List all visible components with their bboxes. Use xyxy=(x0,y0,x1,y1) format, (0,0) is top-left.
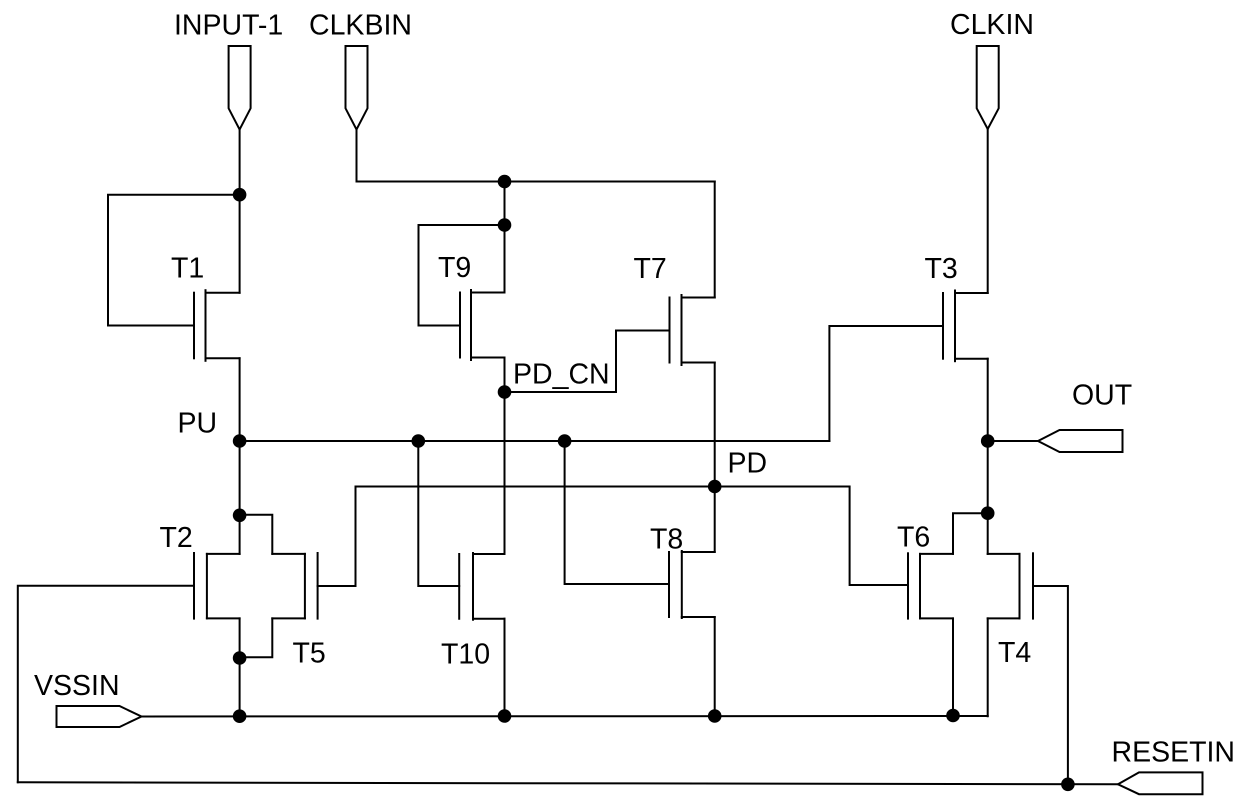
wire T7 source to PD xyxy=(714,363,716,487)
wire PD net east to T6 gate xyxy=(715,487,908,586)
node dot RESETIN / T4 gate xyxy=(1061,778,1075,792)
svg-text:T2: T2 xyxy=(160,522,193,554)
wire T8 drain to PD xyxy=(714,487,716,553)
wire VSSIN net xyxy=(142,715,988,718)
wire INPUT-1 to T1 drain xyxy=(239,130,241,293)
node dot T9 gate loop xyxy=(498,218,512,232)
svg-text:T9: T9 xyxy=(438,252,471,284)
node dot CLKBIN / T9 xyxy=(498,175,512,189)
wire T5 drain stub xyxy=(240,515,273,554)
node dot VSS / T6 xyxy=(946,709,960,723)
node dot VSS / T10 xyxy=(498,709,512,723)
wire T9 source to PD_CN xyxy=(504,358,506,393)
wire T8 gate xyxy=(565,441,669,584)
svg-text:PD: PD xyxy=(728,448,768,480)
transistor T3 xyxy=(943,291,988,362)
pin VSSIN xyxy=(57,706,142,727)
wire PU to T2/T5 drain node xyxy=(239,441,241,515)
wire T6 drain stub xyxy=(953,513,988,554)
node dot PD xyxy=(708,480,722,494)
wire OUT node to T6/T4 drain node xyxy=(987,441,989,513)
wire CLKBIN junction to T9 gate node xyxy=(504,182,506,226)
transistor T10 xyxy=(459,553,504,620)
wire T2 gate to RESETIN net xyxy=(18,586,194,783)
svg-text:T7: T7 xyxy=(634,253,667,285)
svg-text:RESETIN: RESETIN xyxy=(1112,737,1236,769)
wire CLKIN to T3 drain xyxy=(987,129,989,293)
pin OUT xyxy=(1038,430,1123,452)
transistor T4 xyxy=(988,553,1033,618)
svg-text:T3: T3 xyxy=(925,253,958,285)
wire T2 drain stub xyxy=(239,515,241,554)
svg-text:PD_CN: PD_CN xyxy=(513,359,610,391)
wire T10 gate xyxy=(418,441,459,586)
node dot INPUT-1 / T1 gate xyxy=(233,188,247,202)
node dot PD_CN xyxy=(498,385,512,399)
wire PU to T3 gate xyxy=(829,326,943,441)
wire PD net west to T5 gate xyxy=(318,487,715,587)
transistor T2 xyxy=(194,553,240,619)
pin CLKIN xyxy=(977,46,999,129)
wire T9 drain xyxy=(504,225,506,293)
transistor T9 xyxy=(460,290,505,360)
svg-text:OUT: OUT xyxy=(1072,380,1132,412)
svg-text:T4: T4 xyxy=(998,637,1031,669)
wire T4 source to VSS xyxy=(987,618,989,716)
node dot PU xyxy=(233,434,247,448)
node dot VSS / main xyxy=(233,709,247,723)
svg-text:T8: T8 xyxy=(650,524,683,556)
wire PU net xyxy=(240,440,830,442)
transistor T7 xyxy=(670,295,715,365)
svg-text:T6: T6 xyxy=(897,522,930,554)
node dot T2/T5 source xyxy=(233,651,247,665)
transistor T6 xyxy=(908,553,953,618)
wire RESETIN net xyxy=(18,782,1118,784)
wire T3 source to OUT node xyxy=(987,359,989,441)
pin INPUT-1 xyxy=(229,46,251,130)
transistor T1 xyxy=(194,290,240,361)
svg-text:INPUT-1: INPUT-1 xyxy=(174,10,283,42)
transistor T8 xyxy=(669,551,715,618)
wire T2/T5 source node to VSS xyxy=(239,658,241,716)
svg-text:CLKIN: CLKIN xyxy=(950,9,1034,41)
svg-text:T5: T5 xyxy=(293,638,326,670)
node dot VSS / T8 xyxy=(708,709,722,723)
wire T1 gate feedback loop xyxy=(108,195,240,326)
transistor T5 xyxy=(272,553,317,619)
wire T4 gate to RESETIN xyxy=(1033,586,1068,784)
node dot OUT xyxy=(981,434,995,448)
wire T10 source to VSS xyxy=(504,619,506,716)
wire T8 source to VSS xyxy=(714,617,716,716)
wire T9 gate loop xyxy=(419,225,505,326)
wire T6 source to VSS xyxy=(952,618,954,716)
node dot T6/T4 drain xyxy=(981,506,995,520)
wire PD_CN to T10 drain xyxy=(504,392,506,554)
wire PD_CN to T7 gate xyxy=(505,331,670,393)
wire T1 source to PU xyxy=(239,358,241,441)
svg-text:CLKBIN: CLKBIN xyxy=(309,10,412,42)
pin RESETIN xyxy=(1118,772,1203,794)
node dot T2/T5 drain xyxy=(233,509,247,523)
wire OUT node to pin xyxy=(988,440,1038,442)
wire T7 drain to CLKBIN net xyxy=(714,182,716,298)
svg-text:VSSIN: VSSIN xyxy=(34,670,120,702)
node dot PU / T10 gate xyxy=(412,434,426,448)
node dot PU / T8 gate xyxy=(558,434,572,448)
wire T5 source stub xyxy=(240,618,273,657)
svg-text:T1: T1 xyxy=(171,253,204,285)
wire CLKBIN net xyxy=(357,130,715,182)
svg-text:T10: T10 xyxy=(441,639,490,671)
wire T4 drain stub xyxy=(987,513,989,554)
svg-text:PU: PU xyxy=(178,408,218,440)
wire T2 source stub xyxy=(239,618,241,658)
pin CLKBIN xyxy=(346,46,368,130)
